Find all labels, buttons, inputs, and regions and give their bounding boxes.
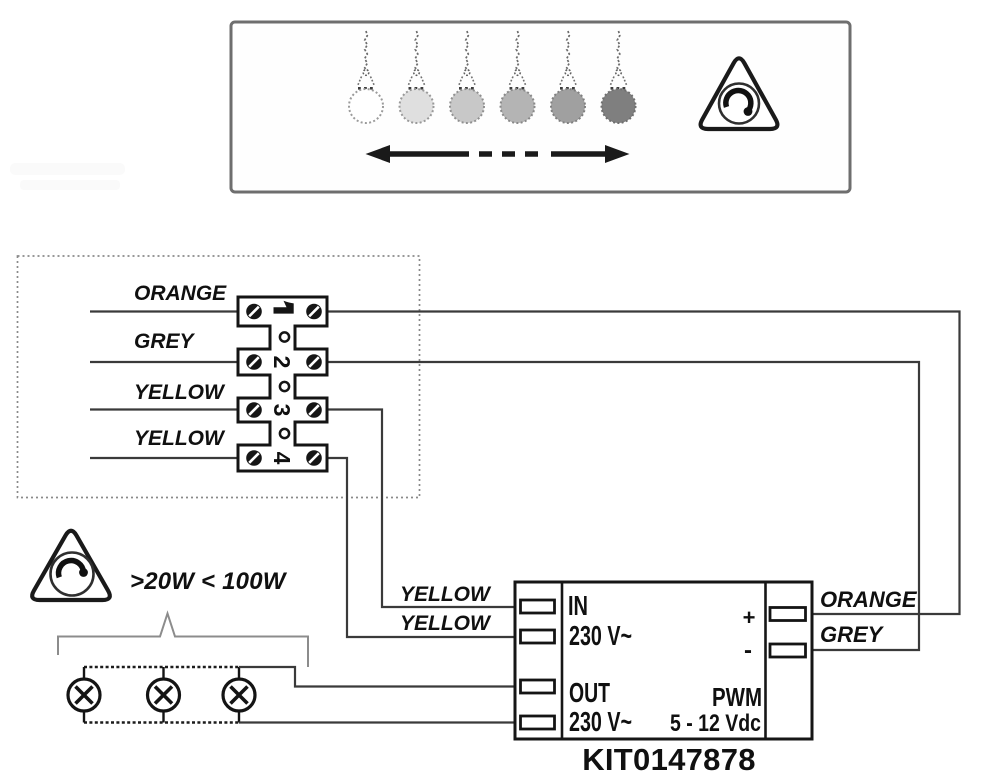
svg-text:3: 3: [269, 404, 295, 417]
lamp bus top (dotted): [84, 666, 239, 668]
wire yellow 2 left: [90, 457, 238, 459]
pendant lamp L3: [450, 31, 484, 123]
pendant lamp L6: [602, 31, 636, 123]
svg-text:+: +: [743, 605, 756, 630]
svg-text:IN: IN: [568, 590, 588, 621]
svg-text:ORANGE: ORANGE: [820, 587, 918, 612]
module terminal -: [770, 644, 806, 657]
pendant lamp L5: [551, 31, 585, 123]
svg-text:230 V~: 230 V~: [569, 706, 632, 737]
svg-text:>20W < 100W: >20W < 100W: [130, 568, 288, 595]
module terminal IN 2: [521, 630, 555, 643]
svg-text:YELLOW: YELLOW: [400, 612, 492, 635]
module terminal IN 1: [521, 600, 555, 613]
svg-text:YELLOW: YELLOW: [134, 381, 226, 404]
svg-text:-: -: [744, 637, 752, 664]
brightness range arrow: [366, 145, 630, 163]
wire lamps to module OUT: [239, 667, 515, 687]
terminal block TB1: [238, 297, 327, 471]
pendant lamp L1: [349, 31, 383, 123]
svg-text:YELLOW: YELLOW: [134, 427, 226, 450]
wire lamps to module OUT 2: [239, 721, 515, 723]
svg-text:YELLOW: YELLOW: [400, 583, 492, 606]
top panel box: [231, 22, 850, 192]
screw terminals row 3: [246, 402, 322, 418]
svg-text:OUT: OUT: [569, 677, 610, 708]
PWM dimmer module KIT0147878: [515, 582, 812, 739]
svg-text:ORANGE: ORANGE: [134, 282, 227, 305]
wire yellow right: terminal 3 to module IN: [327, 410, 515, 608]
module terminal OUT 2: [521, 716, 555, 729]
neck holes 1-2: [280, 332, 289, 341]
pendant lamp L4: [501, 31, 535, 123]
dimmer symbol (bottom): [32, 531, 110, 600]
svg-text:2: 2: [269, 356, 295, 369]
neck holes 3-4: [280, 429, 289, 438]
module terminal OUT 1: [521, 680, 555, 693]
svg-text:4: 4: [269, 452, 295, 465]
wire yellow left: [90, 408, 238, 410]
wire grey right: terminal 2 to module -: [327, 362, 919, 650]
dimmer symbol (top): [701, 58, 778, 129]
wire orange left: [90, 310, 238, 312]
pendant lamp L2: [400, 31, 434, 123]
module left divider: [561, 582, 564, 739]
svg-text:GREY: GREY: [820, 622, 885, 647]
lamp LA1: [68, 667, 100, 723]
pin number 1: [274, 301, 294, 314]
faint ghost mark: [10, 163, 125, 190]
lamp LA3: [223, 667, 255, 723]
svg-text:230 V~: 230 V~: [569, 620, 632, 651]
svg-text:KIT0147878: KIT0147878: [582, 742, 756, 777]
module right divider: [764, 582, 767, 739]
svg-text:GREY: GREY: [134, 330, 196, 353]
screw terminals row 2: [246, 354, 322, 370]
dashed enclosure: [18, 256, 420, 498]
group bracket: [58, 614, 308, 668]
lamp bus bottom (dotted): [84, 721, 239, 723]
wire orange right: terminal 1 to module +: [327, 312, 960, 615]
screw terminals row 1: [246, 304, 322, 320]
wire yellow 2 right: terminal 4 to module IN: [327, 458, 515, 637]
neck holes 2-3: [280, 382, 289, 391]
wire grey left: [90, 361, 238, 363]
module terminal +: [770, 608, 806, 621]
screw terminals row 4: [246, 450, 322, 466]
lamp LA2: [148, 667, 180, 723]
svg-text:PWM: PWM: [712, 682, 762, 712]
svg-text:5 - 12 Vdc: 5 - 12 Vdc: [670, 710, 761, 737]
